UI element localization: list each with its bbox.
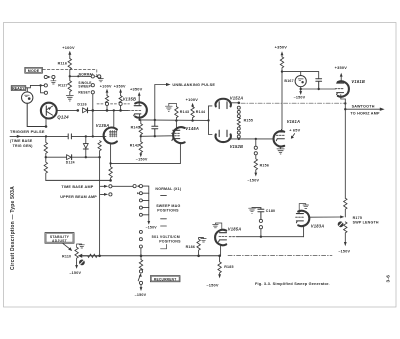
timing resistor chain R155 [230, 102, 240, 139]
resistor above holdoff node [98, 141, 101, 158]
wire plate line down to V161A [280, 72, 283, 130]
wire holdoff to V145A cathode [111, 162, 181, 164]
svg-text:TRIG GEN): TRIG GEN) [13, 144, 33, 148]
ground under V161A [277, 147, 284, 154]
svg-text:R127: R127 [58, 84, 68, 88]
node R143 [175, 119, 177, 121]
svg-text:R186: R186 [186, 245, 195, 249]
node sawtooth takeoff [344, 108, 346, 110]
wire from READY box to single-sweep contacts [26, 85, 41, 87]
node at R131 bottom [109, 179, 112, 182]
node [218, 255, 221, 258]
svg-text:R141: R141 [131, 126, 140, 130]
svg-text:R156: R156 [260, 163, 269, 167]
wire cap to V135A grid [71, 135, 106, 137]
neon bulb B167 [295, 72, 306, 89]
node [45, 156, 47, 158]
svg-text:+350V: +350V [335, 65, 348, 70]
node [92, 135, 94, 137]
svg-text:–150V: –150V [206, 283, 219, 288]
svg-text:SWEEP MAG: SWEEP MAG [156, 204, 180, 208]
indicator label box READY [11, 86, 26, 91]
svg-text:+350V: +350V [130, 87, 143, 92]
ground at R186 [201, 238, 206, 242]
ground at R143 top [165, 103, 176, 111]
resistor R144 [191, 107, 194, 121]
node [207, 119, 209, 121]
capacitor across B167 [316, 79, 322, 89]
diode D124 [46, 155, 86, 160]
resistor below recurrent node [139, 256, 142, 271]
bracket wire joining two contacts [41, 85, 45, 92]
resistor R174 upper part of divider [344, 198, 347, 217]
neon lamp B112 READY [22, 88, 33, 104]
potentiometer R110 [75, 247, 84, 263]
resistor R186 [197, 238, 203, 256]
resistor R156 [254, 155, 257, 171]
wire time base amp row [100, 185, 108, 188]
ground at normal contact [98, 77, 103, 82]
svg-text:–150V: –150V [136, 158, 148, 162]
svg-text:NORMAL (X1): NORMAL (X1) [155, 187, 181, 191]
tick [161, 194, 167, 196]
svg-text:Q124: Q124 [57, 114, 69, 119]
contact pair free run [259, 219, 262, 236]
svg-text:V145A: V145A [185, 126, 199, 131]
node junction at R116/R127 [69, 75, 71, 77]
label box RECURRENT [150, 276, 180, 282]
svg-text:(TIME BASE: (TIME BASE [10, 139, 33, 143]
contact column circles [137, 192, 149, 217]
svg-text:SAWTOOTH: SAWTOOTH [352, 105, 375, 109]
node [119, 109, 122, 112]
wire to resistor node [86, 156, 100, 158]
svg-text:SWP LENGTH: SWP LENGTH [353, 221, 379, 225]
ground below linkage contacts [51, 79, 56, 84]
switch contact pair NORMAL [91, 75, 101, 78]
wiper arrow from V183A [340, 215, 344, 218]
ground at C180 [249, 208, 256, 214]
node [197, 255, 200, 258]
svg-text:R155: R155 [244, 119, 253, 123]
wire bulb bottom to V161B grid [301, 88, 336, 90]
supply arrow -150V switch bank [147, 221, 150, 225]
feed arrow R144 [191, 103, 194, 107]
label box STABILITY ADJUST [45, 233, 74, 244]
svg-text:POSITIONS: POSITIONS [159, 239, 181, 243]
tube V161B [335, 81, 349, 99]
svg-text:+100V: +100V [62, 45, 75, 50]
svg-text:R175: R175 [353, 216, 362, 220]
svg-text:–150V: –150V [338, 249, 350, 253]
cathode bus wire [140, 119, 209, 122]
svg-text:UNBLANKING PULSE: UNBLANKING PULSE [172, 83, 215, 87]
feed arrow V161B plate [340, 73, 343, 83]
screwdriver adjust symbol [338, 221, 344, 227]
linkage dash segment through supply contacts [97, 103, 130, 105]
ganged linkage dash-dot upper [241, 102, 345, 104]
tube V152B envelope [216, 130, 231, 142]
ground at V185A plate [213, 223, 222, 230]
vertical diode between trigger line and D124 line [83, 136, 88, 157]
supply arrow -150V under B167 [299, 89, 302, 95]
feed arrow for R116 [68, 51, 71, 59]
resistor R141 [139, 120, 142, 137]
node dot [77, 75, 79, 77]
svg-text:TIME BASE AMP: TIME BASE AMP [61, 185, 93, 189]
capacitor C180 [252, 208, 264, 220]
svg-text:R142: R142 [130, 144, 139, 148]
svg-text:D124: D124 [66, 160, 75, 164]
node trigger/Q124 emitter [45, 135, 47, 137]
ganged switch linkage dashed line [43, 70, 97, 75]
svg-text:+350V: +350V [114, 84, 126, 88]
resistor R127 [68, 76, 71, 92]
transistor Q124 [41, 103, 57, 127]
node [281, 70, 283, 72]
svg-text:V152B: V152B [230, 144, 244, 149]
unblanking pulse wire with arrow [155, 83, 171, 120]
node [106, 109, 109, 112]
ground under R127 [66, 92, 73, 101]
wire reset contact down to trigger line [92, 94, 94, 136]
switch bank wire from mag contacts [143, 186, 149, 221]
wire grid-leak vertical long [99, 157, 101, 256]
resistor chain lower left [44, 157, 47, 180]
annotation arrow +65V [291, 134, 295, 139]
node at bracket [39, 84, 41, 86]
resistor R142 [139, 136, 142, 153]
tick [161, 225, 167, 227]
feed arrow +100V [106, 89, 109, 96]
wire upper beam amp row [100, 193, 108, 196]
node linkage end [344, 102, 346, 104]
contact pair at mag switch [133, 185, 142, 188]
tube V161A [274, 129, 285, 146]
main cathode bus wire [80, 255, 219, 257]
resistor chain upper left [44, 136, 47, 157]
svg-text:TO HORIZ AMP: TO HORIZ AMP [350, 111, 380, 115]
node V135A cathode [109, 162, 111, 164]
svg-text:V183A: V183A [311, 223, 325, 228]
wire Q124 collector to D126 [57, 109, 78, 111]
wire contacts to grid line [107, 106, 121, 111]
resistor R131 [109, 163, 112, 180]
svg-text:–150V: –150V [69, 271, 81, 275]
contact reset [91, 91, 94, 94]
node [255, 138, 257, 140]
contact circle +350V [119, 102, 122, 105]
node V135B cathode [138, 119, 140, 121]
tube V152A envelope [216, 99, 231, 109]
node V135A plate [113, 109, 115, 111]
ground cap above R110 [77, 244, 85, 248]
svg-text:+350V: +350V [275, 45, 288, 50]
node [140, 135, 142, 137]
screwdriver adjust R110 [79, 260, 85, 266]
svg-text:V185A: V185A [228, 227, 242, 232]
wire lower left bus [46, 179, 111, 181]
node [98, 255, 101, 258]
svg-text:C180: C180 [266, 209, 275, 213]
supply arrow -150V under recurrent [140, 285, 143, 292]
svg-text:V135A: V135A [96, 123, 110, 128]
svg-text:V135B: V135B [123, 96, 137, 101]
svg-text:R144: R144 [196, 110, 205, 114]
svg-text:R110: R110 [62, 255, 71, 259]
svg-text:B167: B167 [284, 79, 293, 83]
resistor at +350V contact [119, 96, 122, 104]
supply arrow -150V under R185 [218, 274, 221, 278]
node anode D126 [77, 109, 80, 112]
wire to V145A grid [141, 135, 171, 138]
wire V183A plate to sweep length wiper [309, 216, 341, 218]
svg-text:–150V: –150V [294, 96, 306, 100]
sweep output bus [344, 99, 346, 198]
label SINGLE SWEEP [78, 81, 91, 88]
wire B167 top branch [282, 72, 319, 79]
wire lamp to Q124 emitter node [27, 103, 46, 126]
wire V152B cathode to V161A grid [229, 138, 273, 140]
supply arrow -150V under R110 [75, 263, 78, 269]
linkage dash-dot lower [228, 254, 332, 256]
contact upper [44, 84, 47, 87]
node [140, 255, 143, 258]
svg-text:D126: D126 [77, 103, 86, 107]
node [318, 88, 320, 90]
tick [161, 218, 167, 220]
feed arrow +350V [119, 89, 122, 96]
feed arrow plate resistor [281, 51, 284, 57]
pointer bracket [161, 244, 167, 248]
coupling capacitor to V145A [152, 120, 158, 136]
resistor R185 [218, 256, 221, 274]
svg-text:READY: READY [12, 87, 25, 91]
node unblanking takeoff [154, 119, 156, 121]
resistor R116 [68, 59, 71, 77]
tube V185A [215, 230, 227, 256]
svg-text:+ 65V: + 65V [289, 129, 300, 133]
recurrent switch arm [138, 273, 142, 281]
svg-text:–150V: –150V [135, 293, 147, 297]
svg-text:–150V: –150V [247, 179, 259, 183]
node R144 [191, 119, 193, 121]
diode D126 [83, 108, 88, 113]
wire grid strap V152 [209, 106, 213, 135]
tube V145A [172, 121, 185, 164]
svg-text:SWEEP: SWEEP [78, 85, 91, 89]
svg-text:TRIGGER PULSE: TRIGGER PULSE [10, 129, 45, 134]
svg-text:Fig. 3-3. Simplified Sweep Gen: Fig. 3-3. Simplified Sweep Generator. [255, 282, 330, 286]
recurrent switch contact [139, 270, 142, 273]
resistor at +100V contact [105, 96, 108, 104]
svg-text:POSITIONS: POSITIONS [157, 209, 179, 213]
resistor R143 [175, 107, 178, 121]
contact [109, 185, 112, 188]
wiper series resistor [83, 254, 99, 257]
contact single sweep [91, 84, 94, 87]
svg-text:3-6: 3-6 [386, 275, 392, 283]
switch contact pair on linkage row [44, 75, 55, 78]
svg-text:+100V: +100V [100, 84, 112, 88]
node [98, 156, 100, 158]
mode switch label box MODE [25, 67, 43, 73]
svg-text:R116: R116 [58, 61, 68, 65]
STABILITY text [50, 235, 70, 243]
wire normal contact row [70, 75, 91, 77]
svg-text:Circuit Description — Type 503: Circuit Description — Type 503A [10, 186, 16, 270]
contact pair below V161A grid line [254, 139, 257, 155]
trigger input wire with direction arrow [10, 135, 68, 138]
wire to mag switch [112, 185, 133, 187]
supply arrow -150V under R175 [344, 242, 347, 246]
svg-text:UPPER BEAM AMP: UPPER BEAM AMP [60, 195, 97, 199]
contact lower [44, 91, 47, 94]
supply arrow -150V under R142 [139, 153, 142, 157]
svg-text:ADJUST: ADJUST [52, 239, 68, 243]
tube V183A [296, 211, 310, 237]
feed arrow V135B plate [138, 92, 141, 106]
node reset line junction [92, 109, 95, 112]
coupling capacitor on trigger line [68, 134, 71, 139]
svg-text:MODE: MODE [28, 69, 40, 73]
node [85, 156, 87, 158]
tube V135A [104, 110, 117, 163]
svg-text:R143: R143 [180, 110, 189, 114]
node diode branch [85, 135, 87, 137]
node [238, 138, 240, 140]
plate resistor R166 [280, 57, 283, 72]
node [300, 88, 302, 90]
sawtooth output wire with arrow [345, 108, 384, 111]
svg-text:RECURRENT: RECURRENT [154, 277, 177, 281]
annotation arrow from box to R110 [63, 244, 72, 251]
resistor R175 lower part [344, 222, 347, 242]
svg-text:V161B: V161B [351, 79, 365, 84]
svg-text:R185: R185 [224, 265, 233, 269]
node C180 branch [260, 236, 262, 238]
svg-text:RESET: RESET [78, 91, 90, 95]
tube V135B [128, 102, 147, 120]
wire V185A grid to V183A cathode [229, 236, 303, 238]
supply arrow -150V under R156 [254, 171, 257, 177]
svg-text:+100V: +100V [186, 97, 199, 102]
svg-text:V152A: V152A [230, 95, 244, 100]
wire D126 to V135B grid [88, 109, 129, 111]
svg-text:–150V: –150V [146, 226, 158, 230]
node at emitter junction [45, 125, 48, 128]
node [154, 135, 156, 137]
recurrent switch contact lower [139, 281, 142, 284]
open contacts lower [139, 230, 142, 255]
contact [109, 193, 112, 196]
contact circle +100V [105, 102, 108, 105]
svg-text:V161A: V161A [287, 119, 301, 124]
ground at V183A plate [299, 204, 308, 214]
